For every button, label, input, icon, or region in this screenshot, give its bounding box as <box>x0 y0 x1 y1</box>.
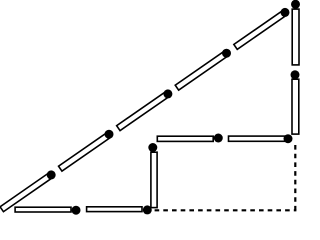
diagonal stick D1 <box>0 172 53 211</box>
dot b1 <box>72 206 81 215</box>
dot b2 <box>143 205 152 214</box>
dot d2 <box>105 130 114 139</box>
dot sM (shelf middle) <box>214 134 223 143</box>
dot d1 <box>47 170 56 179</box>
bottom stick B1 <box>15 207 71 212</box>
vertical stick V2 <box>292 79 299 134</box>
vertical stick V1 <box>292 9 299 65</box>
vertical stick SV (staircase riser) <box>151 152 157 207</box>
dot c1 <box>291 70 300 79</box>
diagonal stick D3 <box>117 91 170 130</box>
dot c2 (shelf right corner) <box>284 134 293 143</box>
shelf stick S2 <box>229 136 286 141</box>
diagonal stick D4 <box>175 51 228 90</box>
dashed vertical edge <box>294 145 296 210</box>
dot c0 (apex corner) <box>291 0 300 9</box>
dot sL (shelf left corner) <box>148 143 157 152</box>
dot d5 <box>281 8 290 17</box>
diagonal stick D5 <box>234 10 287 49</box>
dot d3 <box>163 89 172 98</box>
dashed bottom edge <box>155 209 297 211</box>
bottom stick B2 <box>87 207 142 212</box>
dot d4 <box>222 49 231 58</box>
shelf stick S1 <box>157 136 213 141</box>
diagonal stick D2 <box>59 132 112 171</box>
